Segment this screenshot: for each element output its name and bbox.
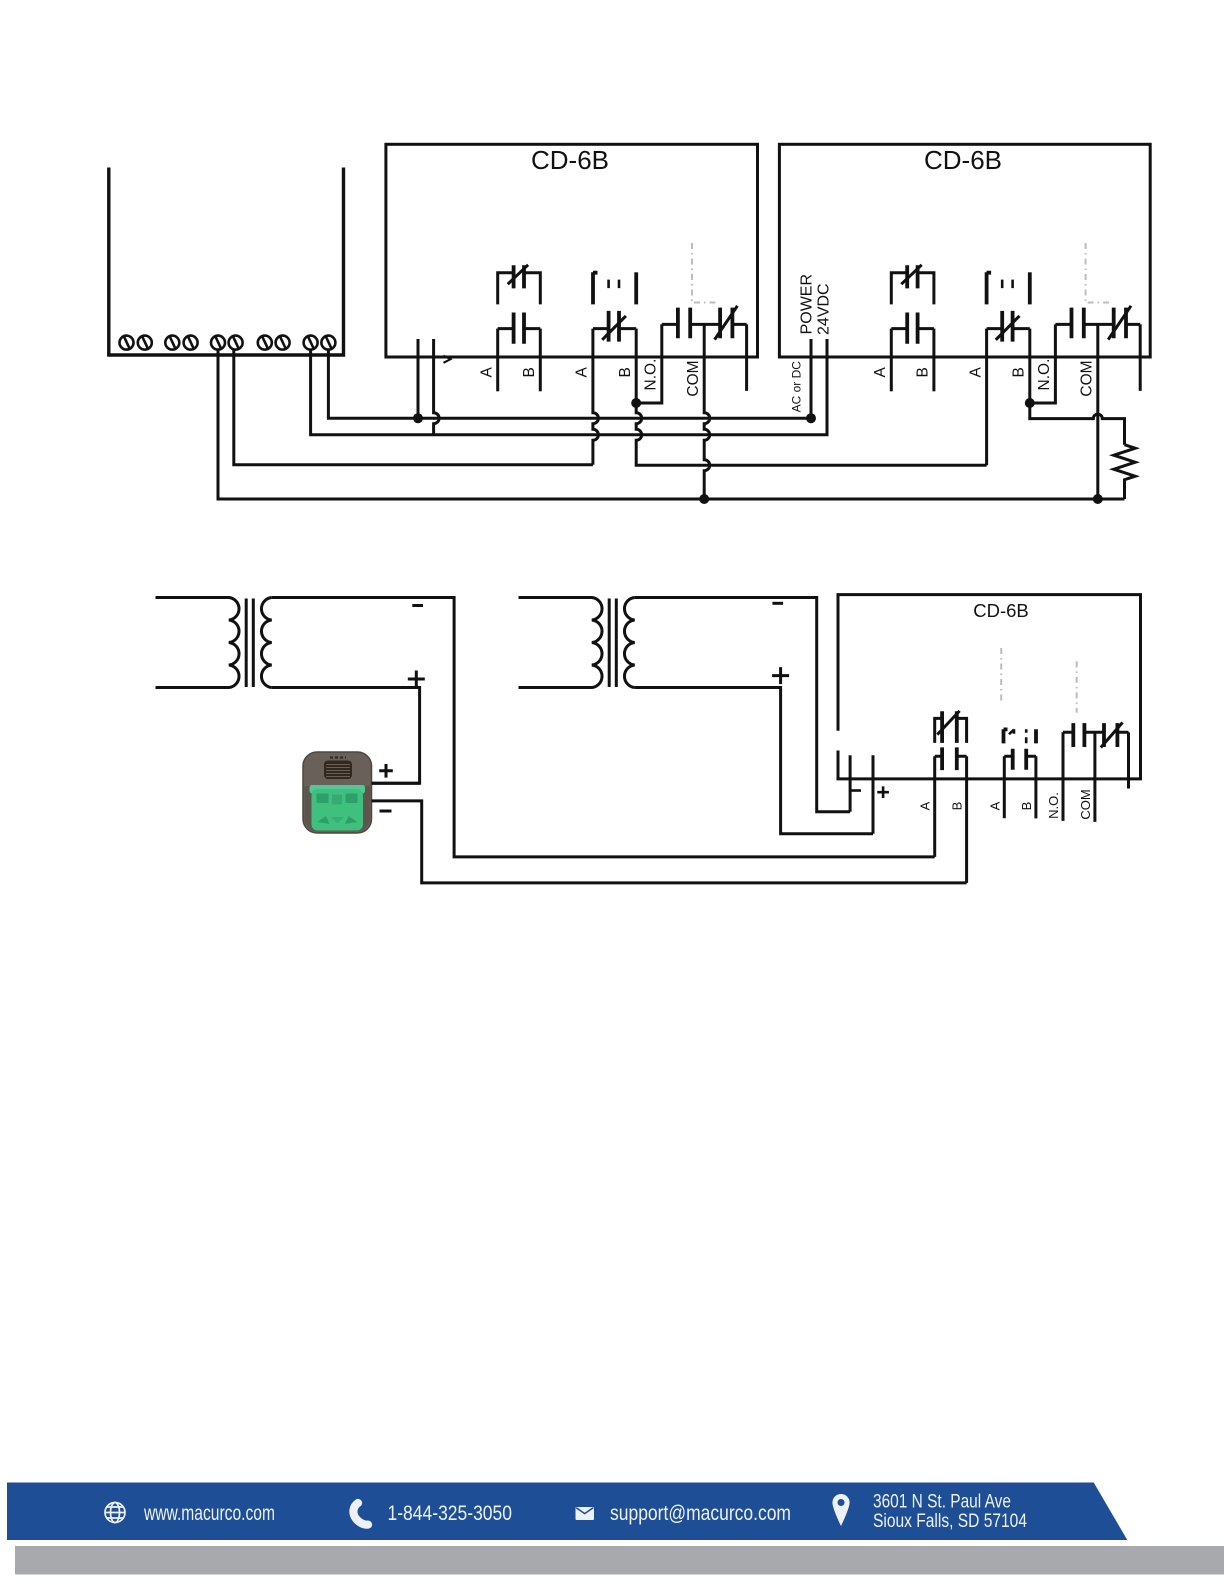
wire: U1 relay2 B down to L5 toward U2 (hops L1,L2) [636,329,986,466]
wire: U3 relay2 B stub [1034,756,1037,818]
svg-text:A: A [478,366,495,377]
junction: L1 / U1 power stub 1 [413,413,423,423]
wire: screw 5 common bus (L4) [218,350,1125,499]
transformer T1 core [246,599,253,688]
relay contact U2 K2 NO with actuator dashes (top) [987,272,1030,304]
wire: screw 10 to power terminal 1 of U2 (L1) [328,350,811,419]
svg-text:CD-6B: CD-6B [531,145,609,175]
label - (U3 power) [851,789,861,792]
mechanical link dashed line (U1) [692,243,718,303]
globe icon [105,1503,125,1523]
relay contact U2 K1 NC (top) [891,265,934,305]
svg-text:COM: COM [1079,360,1096,396]
svg-text:support@macurco.com: support@macurco.com [610,1501,791,1525]
svg-text:24VDC: 24VDC [816,283,833,335]
wire: U1 relay2 A down to L3 (hops L1,L2) [593,329,599,465]
mechanical link dashed line (U2) [1086,243,1112,303]
relay contact U3 K2 (bottom) [1004,749,1036,770]
transformer T2 primary winding [519,598,603,688]
svg-text:N.O.: N.O. [643,359,660,391]
horn strobe LT1 body [303,752,372,833]
wire: U3 aux right stub [1127,732,1130,788]
wire: U3 plus power stub [872,755,875,833]
wire: U1 aux right stub [745,324,748,391]
wire: U2 power stub 1 [810,339,813,418]
svg-text:N.O.: N.O. [1046,792,1061,819]
relay contact U1 K2 NC (bottom) [593,311,636,342]
wire: horn - to U3 relay1 B [372,801,967,883]
location pin icon [832,1494,849,1526]
svg-text:COM: COM [685,360,702,396]
footer blue ribbon [7,1483,1127,1541]
wire: U1 COM down to bus L4 (hops L1,L2,L5) [704,324,710,499]
svg-text:Sioux Falls, SD 57104: Sioux Falls, SD 57104 [873,1511,1027,1532]
screw terminal 9 [304,336,318,350]
CD-6B unit U2 box [779,144,1150,357]
relay contact U2 K1 NO (bottom) [891,313,934,344]
svg-text:A: A [918,801,933,810]
wire: U1 terminal B1 stub [539,329,542,392]
arrow mark on U1 bottom edge [444,356,451,363]
wire: T1 secondary negative to U3 relay1 A [272,598,935,857]
transformer T1 primary winding [156,598,240,688]
junction: U1 relay2 B / N.O. link [631,398,641,408]
svg-text:B: B [915,367,932,377]
svg-text:N.O.: N.O. [1036,359,1053,391]
terminal box TB1 (panel, open top) [109,168,344,356]
footer grey bar [15,1546,1224,1575]
envelope icon [576,1507,595,1520]
relay contact U1 K2 NO with actuator dashes (top) [593,272,636,304]
relay contact U3 K1 NC (top) [935,711,967,743]
svg-text:B: B [521,367,538,377]
label + (T2) [772,667,789,684]
screw terminal 10 [321,336,335,350]
svg-text:COM: COM [1078,789,1093,819]
svg-text:www.macurco.com: www.macurco.com [143,1501,275,1525]
svg-text:B: B [1011,367,1028,377]
relay contact U1 K3 NO/NC pair (aux N.O./COM) [662,306,747,340]
wire: U3 relay1 B down [965,756,968,883]
relay contact U1 K1 NC (top) [498,265,541,305]
wire: T1 secondary positive to horn + [272,688,420,784]
relay contact U2 K3 NO/NC pair (aux N.O./COM) [1055,306,1140,340]
wire: U2 aux right stub [1139,324,1142,391]
svg-text:A: A [574,366,591,377]
mechanical link dashed lines (U3) [1001,648,1076,713]
screw terminal 7 [258,336,272,350]
wire: U1 terminal A1 stub [496,329,499,392]
screw terminal 1 [120,336,134,350]
label - (T2) [772,602,783,605]
screw terminal 2 [138,336,152,350]
relay contact U1 K1 NO (bottom) [498,313,541,344]
svg-text:3601 N St. Paul Ave: 3601 N St. Paul Ave [873,1492,1011,1513]
junction: U2 COM / bus L4 [1093,494,1103,504]
wire: U3 minus power stub [849,755,852,811]
svg-text:1-844-325-3050: 1-844-325-3050 [388,1501,513,1525]
relay contact U3 K1 NO (bottom) [935,747,967,770]
wire: U1 N.O. link to B [636,324,662,403]
relay contact U3 K2 NO with dashes (top) [1004,729,1037,743]
screw terminal 3 [165,336,179,350]
horn strobe LT1 speaker grille [324,758,352,780]
transformer T2 core [609,599,616,688]
junction: U1 COM / bus L4 [699,494,709,504]
label + (U3 power) [877,786,889,798]
label + (horn) [379,764,393,778]
wire: U1 power stub 1 [417,339,420,418]
transformer T2 secondary winding [624,598,634,688]
label + (T1) [408,671,425,688]
wire: U3 relay1 A down [933,756,936,857]
label - (horn) [380,810,392,813]
svg-text:AC or DC: AC or DC [790,361,804,413]
junction: U2 relay2 B / N.O. link [1025,398,1035,408]
wire: screw 9 to power terminal 2 of U2 (L2) [311,339,827,435]
svg-text:CD-6B: CD-6B [973,600,1029,621]
wire: screw 6 to relay2 terminal A of U1 (L3) [234,350,593,465]
wire: U3 N.O. stub [1062,732,1065,821]
screw terminal 4 [184,336,198,350]
wire: horn + to T1 positive [372,782,420,785]
wire: T2 secondary positive to U3 plus terminal [635,688,873,834]
svg-text:B: B [617,367,634,377]
wire: U2 terminal A1 stub [890,329,893,392]
svg-text:POWER: POWER [799,274,816,334]
svg-text:B: B [1019,802,1034,811]
screw terminal 6 [229,336,243,350]
relay contact U2 K2 NC (bottom) [987,311,1030,342]
svg-text:CD-6B: CD-6B [924,145,1002,175]
wire: U2 COM down to bus L4 [1096,324,1099,499]
horn strobe LT1 green lens [310,785,366,831]
screw terminal 5 [211,336,225,350]
wire: U3 relay2 A stub [1003,756,1006,818]
svg-text:B: B [950,802,965,811]
CD-6B unit U3 box [838,595,1141,779]
wire: U2 relay2 A down to L5 [985,329,988,466]
wire: U1 power stub 2 (hops L1) [434,339,440,435]
CD-6B unit U1 box [386,144,758,357]
screw terminal 8 [276,336,290,350]
wire: U3 COM stub [1093,732,1096,822]
relay contact U3 K3 aux pair [1063,723,1129,748]
svg-text:A: A [872,366,889,377]
resistor R1 (EOL) [1114,445,1135,499]
wire: U2 relay2 B to EOL resistor (hops COM) [1030,329,1125,445]
label - (T1) [412,604,423,607]
phone icon [353,1503,368,1525]
junction: L1 / U2 power stub 1 [806,413,816,423]
wire: U2 terminal B1 stub [932,329,935,392]
wire: T2 secondary negative to U3 minus terminal [635,598,850,812]
svg-text:A: A [967,366,984,377]
wire: U2 N.O. link to B [1030,324,1056,403]
transformer T1 secondary winding [261,598,271,688]
svg-text:A: A [987,801,1002,810]
